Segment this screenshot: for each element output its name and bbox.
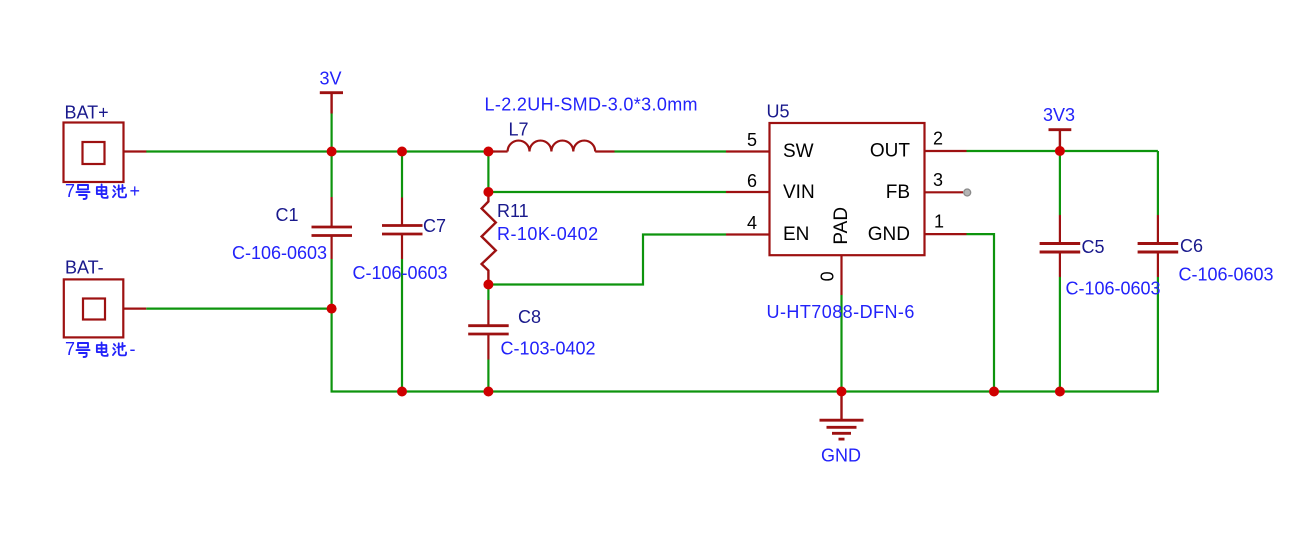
wire C1 branch upper xyxy=(331,152,333,198)
wire 3V stem xyxy=(331,114,333,152)
svg-text:C-106-0603: C-106-0603 xyxy=(1066,279,1161,299)
power symbol 3V xyxy=(320,93,343,114)
wire C7 branch lower xyxy=(401,259,403,392)
junction at VIN / R11 top xyxy=(483,187,493,197)
inductor L7 xyxy=(493,141,615,152)
svg-text:C7: C7 xyxy=(423,216,446,236)
junction at L7 branch xyxy=(483,147,493,157)
svg-text:C6: C6 xyxy=(1180,236,1203,256)
value 7号电池- (BAT-) xyxy=(65,339,136,359)
capacitor C1 xyxy=(312,197,353,259)
connector BAT+ xyxy=(64,123,147,183)
ground symbol GND xyxy=(820,392,864,440)
wire ground rail xyxy=(331,390,1158,392)
svg-text:0: 0 xyxy=(818,271,838,281)
pin 5 SW lead xyxy=(726,150,770,152)
pin 0 PAD lead xyxy=(840,255,842,295)
svg-text:7: 7 xyxy=(65,339,75,359)
wire C6 branch lower xyxy=(1157,277,1159,393)
wire C6 branch upper xyxy=(1157,151,1159,215)
wire C7 branch upper xyxy=(401,152,403,198)
pin 4 EN lead xyxy=(726,233,770,235)
IC U5 xyxy=(770,123,925,255)
wire OUT to 3V3 corner xyxy=(967,150,1158,152)
svg-text:3: 3 xyxy=(933,170,943,190)
wire C1 branch lower to rail xyxy=(331,259,333,393)
svg-text:R11: R11 xyxy=(497,201,529,221)
pin 3 FB lead xyxy=(925,191,964,193)
svg-text:2: 2 xyxy=(933,129,943,149)
junction at C7 bottom rail xyxy=(397,387,407,397)
svg-text:C1: C1 xyxy=(276,205,299,225)
capacitor C7 xyxy=(382,198,423,260)
capacitor C5 xyxy=(1040,215,1081,277)
svg-text:4: 4 xyxy=(747,213,757,233)
wire L7 to pin5 xyxy=(615,150,727,152)
connector BAT- xyxy=(64,279,147,337)
svg-text:PAD: PAD xyxy=(831,207,852,245)
junction at BAT- / C1 xyxy=(327,304,337,314)
junction at R11 bottom / EN / C8 xyxy=(483,280,493,290)
capacitor C6 xyxy=(1138,215,1179,277)
svg-text:L-2.2UH-SMD-3.0*3.0mm: L-2.2UH-SMD-3.0*3.0mm xyxy=(485,95,698,115)
svg-text:3V: 3V xyxy=(320,69,342,89)
wire PAD to rail xyxy=(840,295,842,392)
capacitor C8 xyxy=(468,300,509,360)
svg-text:6: 6 xyxy=(747,171,757,191)
junction at 3V / C1 top xyxy=(327,147,337,157)
svg-text:+: + xyxy=(130,181,141,201)
svg-text:FB: FB xyxy=(886,182,910,203)
wire EN route xyxy=(488,235,726,285)
svg-text:C5: C5 xyxy=(1082,237,1105,257)
junction at C7 top xyxy=(397,147,407,157)
svg-text:C-106-0603: C-106-0603 xyxy=(232,243,327,263)
svg-text:GND: GND xyxy=(868,224,910,245)
svg-text:R-10K-0402: R-10K-0402 xyxy=(497,224,599,244)
svg-text:EN: EN xyxy=(783,224,809,245)
wire C5 branch upper xyxy=(1059,151,1061,215)
svg-text:SW: SW xyxy=(783,141,814,162)
svg-text:U-HT7088-DFN-6: U-HT7088-DFN-6 xyxy=(767,302,915,322)
svg-text:1: 1 xyxy=(934,212,944,232)
svg-text:L7: L7 xyxy=(509,120,529,140)
power symbol 3V3 xyxy=(1049,130,1072,151)
junction at GND rail xyxy=(837,387,847,397)
svg-text:VIN: VIN xyxy=(783,182,815,203)
resistor R11 xyxy=(482,192,496,285)
wire BAT- to C1 node xyxy=(146,308,331,310)
wire GND pin1 route xyxy=(967,234,995,391)
no-connect dot FB xyxy=(964,189,971,196)
svg-text:GND: GND xyxy=(821,446,861,466)
svg-text:7: 7 xyxy=(65,181,75,201)
value 7号电池+ (BAT+) xyxy=(65,181,140,201)
wire C8 upper xyxy=(487,285,489,301)
svg-text:-: - xyxy=(130,339,136,359)
wire BAT+ to L7 (net 3V) xyxy=(146,150,494,152)
junction at pin1 wire rail xyxy=(989,387,999,397)
svg-text:C-106-0603: C-106-0603 xyxy=(353,263,448,283)
svg-text:C-103-0402: C-103-0402 xyxy=(501,339,596,359)
wire C8 lower xyxy=(487,360,489,392)
pin 6 VIN lead xyxy=(726,191,770,193)
svg-text:OUT: OUT xyxy=(870,141,911,162)
wire VIN xyxy=(488,191,726,193)
svg-text:5: 5 xyxy=(747,130,757,150)
junction at C5 bottom rail xyxy=(1055,387,1065,397)
svg-text:BAT-: BAT- xyxy=(65,258,104,278)
svg-text:U5: U5 xyxy=(767,102,790,122)
svg-text:C8: C8 xyxy=(518,307,541,327)
junction at C8 bottom rail xyxy=(483,387,493,397)
svg-text:BAT+: BAT+ xyxy=(65,103,109,123)
svg-text:C-106-0603: C-106-0603 xyxy=(1179,265,1274,285)
pin 2 OUT lead xyxy=(925,150,967,152)
wire C5 branch lower xyxy=(1059,277,1061,392)
junction at 3V3 / C5 top xyxy=(1055,146,1065,156)
wire node to VIN row xyxy=(487,152,489,193)
pin 1 GND lead xyxy=(925,233,967,235)
svg-text:3V3: 3V3 xyxy=(1043,105,1075,125)
